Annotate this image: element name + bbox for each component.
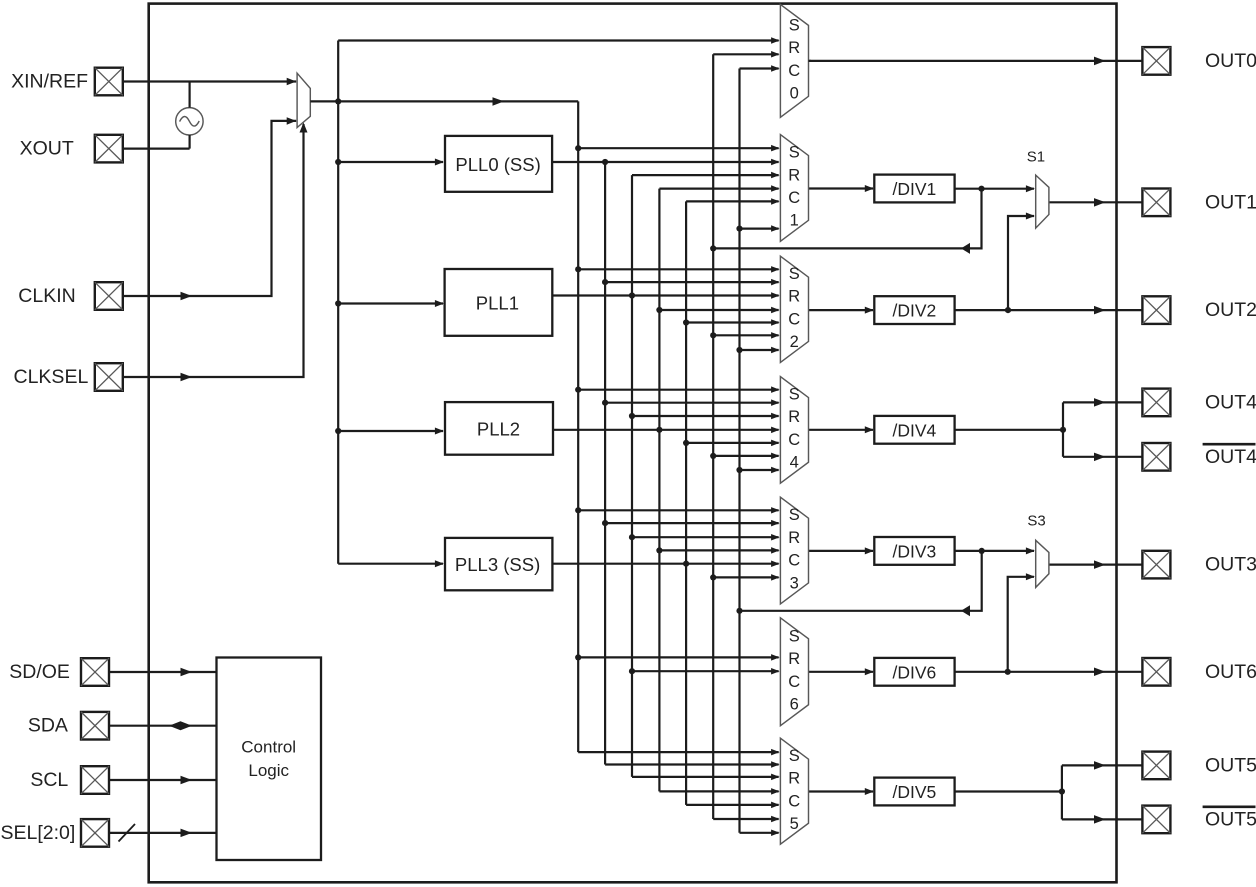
svg-text:SD/OE: SD/OE xyxy=(9,661,70,683)
svg-text:R: R xyxy=(788,39,800,57)
svg-text:2: 2 xyxy=(790,333,799,351)
svg-text:C: C xyxy=(788,673,800,691)
svg-text:4: 4 xyxy=(790,454,799,472)
svg-text:SDA: SDA xyxy=(28,715,68,737)
svg-text:S: S xyxy=(789,506,800,524)
svg-text:6: 6 xyxy=(790,696,799,714)
svg-text:/DIV3: /DIV3 xyxy=(893,541,937,561)
svg-text:OUT1: OUT1 xyxy=(1205,191,1256,213)
svg-text:/DIV4: /DIV4 xyxy=(893,420,937,440)
svg-text:1: 1 xyxy=(790,212,799,230)
svg-text:C: C xyxy=(788,431,800,449)
svg-text:S3: S3 xyxy=(1027,513,1045,530)
svg-text:S: S xyxy=(789,144,800,162)
svg-text:R: R xyxy=(788,166,800,184)
svg-text:CLKIN: CLKIN xyxy=(18,285,75,307)
svg-text:S1: S1 xyxy=(1027,149,1045,166)
svg-text:PLL3 (SS): PLL3 (SS) xyxy=(455,554,540,575)
svg-text:OUT3: OUT3 xyxy=(1205,554,1256,576)
svg-text:OUT4: OUT4 xyxy=(1205,446,1256,468)
svg-text:R: R xyxy=(788,770,800,788)
svg-text:SEL[2:0]: SEL[2:0] xyxy=(0,822,75,844)
svg-text:S: S xyxy=(789,627,800,645)
svg-text:PLL0 (SS): PLL0 (SS) xyxy=(455,154,540,175)
svg-text:OUT0: OUT0 xyxy=(1205,50,1256,72)
svg-text:C: C xyxy=(788,792,800,810)
svg-text:S: S xyxy=(789,265,800,283)
svg-text:/DIV6: /DIV6 xyxy=(893,662,937,682)
svg-text:PLL2: PLL2 xyxy=(477,418,520,439)
svg-text:PLL1: PLL1 xyxy=(476,292,519,313)
svg-text:R: R xyxy=(788,529,800,547)
svg-text:/DIV5: /DIV5 xyxy=(893,782,937,802)
svg-text:5: 5 xyxy=(790,815,799,833)
svg-text:0: 0 xyxy=(790,85,799,103)
svg-text:Logic: Logic xyxy=(248,761,289,780)
svg-text:SCL: SCL xyxy=(30,769,68,791)
svg-text:XIN/REF: XIN/REF xyxy=(11,71,88,93)
svg-text:OUT6: OUT6 xyxy=(1205,661,1256,683)
svg-text:R: R xyxy=(788,408,800,426)
svg-text:OUT2: OUT2 xyxy=(1205,299,1256,321)
svg-text:C: C xyxy=(788,189,800,207)
svg-text:C: C xyxy=(788,310,800,328)
svg-text:R: R xyxy=(788,650,800,668)
svg-text:OUT5: OUT5 xyxy=(1205,754,1256,776)
svg-text:S: S xyxy=(789,747,800,765)
svg-text:OUT4: OUT4 xyxy=(1205,391,1256,413)
svg-text:3: 3 xyxy=(790,574,799,592)
svg-text:/DIV1: /DIV1 xyxy=(893,179,937,199)
svg-text:S: S xyxy=(789,386,800,404)
svg-text:Control: Control xyxy=(241,738,296,757)
svg-text:R: R xyxy=(788,288,800,306)
svg-text:S: S xyxy=(789,17,800,35)
svg-text:/DIV2: /DIV2 xyxy=(893,301,937,321)
svg-text:C: C xyxy=(788,62,800,80)
svg-text:C: C xyxy=(788,552,800,570)
svg-text:CLKSEL: CLKSEL xyxy=(14,366,89,388)
svg-text:OUT5: OUT5 xyxy=(1205,808,1256,830)
svg-text:XOUT: XOUT xyxy=(20,138,74,160)
